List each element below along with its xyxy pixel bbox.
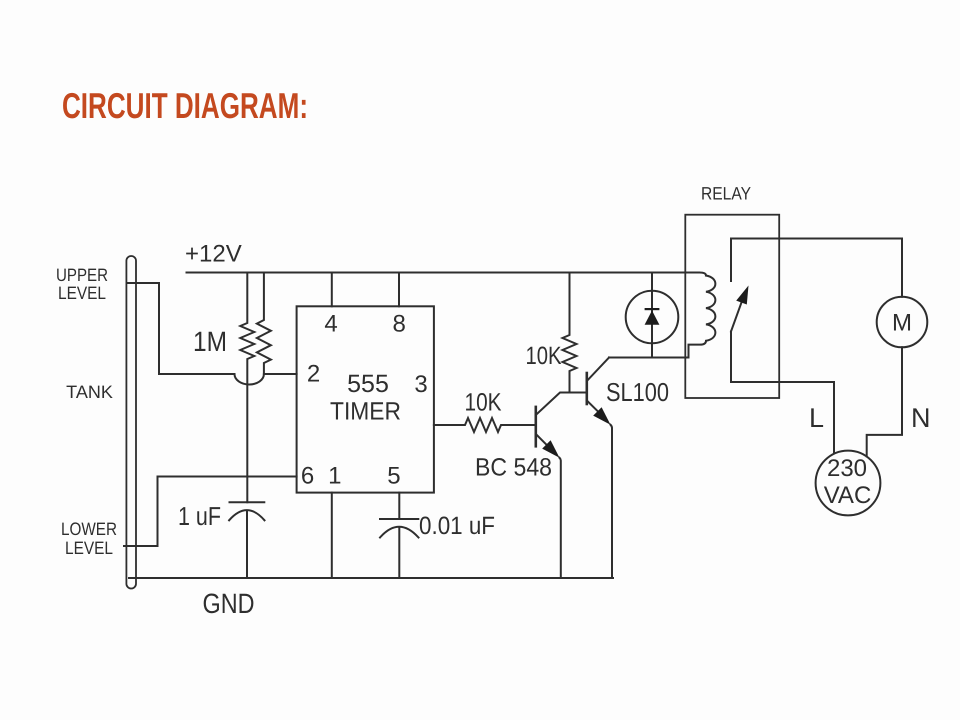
svg-text:CIRCUIT DIAGRAM:: CIRCUIT DIAGRAM:: [62, 85, 308, 126]
svg-text:TANK: TANK: [66, 382, 113, 402]
svg-text:VAC: VAC: [824, 482, 872, 509]
svg-text:RELAY: RELAY: [701, 184, 751, 204]
svg-text:2: 2: [307, 361, 320, 388]
svg-text:8: 8: [393, 310, 406, 337]
svg-text:10K: 10K: [465, 389, 502, 417]
svg-text:1 uF: 1 uF: [178, 501, 221, 531]
svg-text:1: 1: [328, 463, 341, 490]
svg-text:LOWER: LOWER: [61, 519, 117, 539]
svg-text:555: 555: [347, 370, 389, 398]
svg-text:5: 5: [387, 463, 400, 490]
svg-text:UPPER: UPPER: [56, 265, 108, 285]
svg-text:0.01 uF: 0.01 uF: [419, 512, 495, 540]
svg-text:LEVEL: LEVEL: [58, 283, 106, 303]
svg-text:LEVEL: LEVEL: [65, 538, 113, 558]
svg-text:+12V: +12V: [185, 241, 242, 268]
svg-text:M: M: [892, 310, 912, 337]
svg-text:3: 3: [414, 371, 427, 398]
svg-text:10K: 10K: [526, 342, 562, 370]
svg-text:SL100: SL100: [606, 377, 669, 407]
svg-text:4: 4: [324, 310, 337, 337]
svg-text:L: L: [809, 403, 824, 433]
svg-text:1M: 1M: [193, 326, 227, 357]
svg-text:BC 548: BC 548: [475, 454, 552, 482]
svg-text:6: 6: [301, 463, 314, 490]
svg-text:230: 230: [827, 455, 867, 482]
svg-text:GND: GND: [203, 588, 255, 619]
svg-text:TIMER: TIMER: [330, 398, 401, 426]
svg-text:N: N: [911, 403, 931, 433]
